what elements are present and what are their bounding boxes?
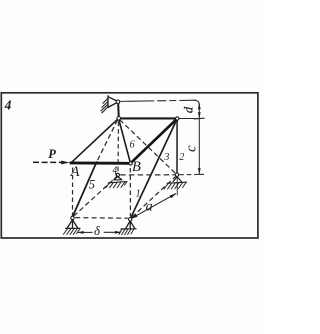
support BBL ground: [108, 182, 127, 183]
svg-text:6: 6: [130, 140, 135, 151]
svg-text:A: A: [70, 164, 80, 180]
svg-text:a: a: [146, 199, 153, 214]
dashed edge BBL-RM: [120, 174, 175, 176]
arrow down bottom of c: [198, 168, 201, 174]
dashed edge A-FL: [72, 168, 74, 216]
node FL: [71, 216, 74, 219]
node R: [176, 117, 179, 120]
rod 1 R-FR: [131, 119, 177, 218]
rod U-A: [72, 118, 119, 161]
dashed extension RM to dim line: [179, 174, 195, 176]
link T-U: [117, 104, 120, 116]
top wall hatching: [101, 98, 108, 113]
node BBL: [116, 173, 119, 176]
dashed edge U-BBL: [117, 122, 120, 173]
force P dash line: [33, 161, 63, 163]
support FR ground: [121, 228, 137, 230]
node RM: [175, 173, 178, 176]
dimension b line right: [104, 231, 121, 233]
svg-text:δ: δ: [94, 223, 101, 238]
arrow b left: [77, 231, 83, 234]
corner into dimension line: [194, 100, 200, 105]
support FL hatching: [63, 229, 80, 235]
support FR hatching: [119, 229, 134, 235]
tick at RM level: [194, 173, 204, 175]
arrow a lower: [131, 214, 138, 219]
dash-dot axis from T to right: [120, 100, 196, 101]
dimension b line left: [78, 231, 93, 233]
arrow up top of d: [198, 103, 201, 109]
dashed edge FR-RM: [132, 176, 176, 217]
bar U-R: [119, 117, 178, 119]
diagonal B-R (thick): [131, 119, 178, 164]
extension line below RM: [176, 177, 178, 196]
tick at bar level: [194, 117, 205, 120]
dimension line d/c vertical: [198, 104, 200, 175]
arrow down bottom of d: [198, 112, 201, 118]
node B: [129, 162, 132, 165]
top bracket links: [108, 97, 116, 108]
force P arrowhead: [61, 161, 70, 165]
dashed diagonal U-RM: [120, 120, 176, 174]
arrow a upper: [170, 193, 177, 198]
border frame: [1, 93, 258, 238]
support FR triangle: [126, 221, 135, 229]
svg-text:c: c: [184, 145, 200, 152]
rod 2 vertical R-RM: [176, 119, 178, 175]
support BBL triangle: [113, 177, 122, 180]
node FR: [129, 218, 132, 221]
svg-text:d: d: [181, 106, 195, 113]
arrow b right: [115, 231, 121, 234]
support RM hatching: [164, 182, 186, 189]
svg-text:2: 2: [179, 152, 184, 163]
leader arrow for 4: [115, 173, 118, 177]
svg-text:P: P: [48, 147, 56, 161]
pin T: [116, 100, 120, 104]
dashed edge FL-FR: [75, 217, 128, 220]
dashed edge B-FR: [129, 168, 131, 216]
top wall line: [107, 95, 109, 108]
svg-text:1: 1: [136, 188, 141, 199]
rod 5 solid part to FL: [73, 161, 97, 216]
support FL triangle: [67, 220, 78, 229]
dimension a line: [131, 194, 176, 219]
svg-text:3: 3: [163, 152, 169, 163]
support FL ground: [65, 227, 80, 229]
bar A-B (thick): [70, 161, 131, 164]
svg-text:5: 5: [89, 177, 95, 191]
dashed diagonal FL-BBL: [74, 176, 117, 216]
svg-text:B: B: [132, 159, 141, 175]
dashed U-FL upper part: [97, 120, 117, 161]
rod 6 U-B: [119, 119, 131, 163]
support BBL hatching: [106, 181, 128, 188]
bar extension R to dim line: [177, 117, 199, 119]
node U: [117, 117, 121, 121]
support RM ground: [167, 182, 187, 183]
svg-text:4: 4: [4, 98, 12, 113]
support RM triangle: [173, 177, 182, 182]
